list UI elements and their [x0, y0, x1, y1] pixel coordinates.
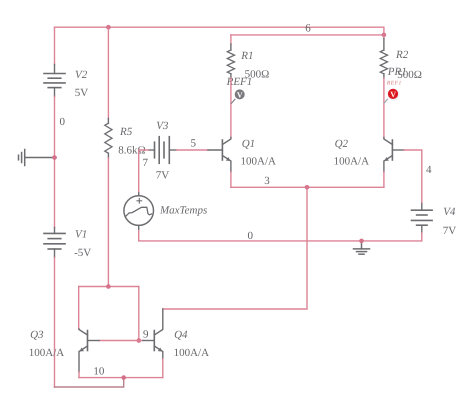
label 500ohm R2 [397, 69, 422, 81]
wire V3 left to MaxTemps top [139, 150, 149, 193]
transistor Q2 [384, 138, 404, 173]
node 9 label [143, 329, 149, 341]
label V1 [75, 228, 87, 240]
svg-text:5V: 5V [75, 87, 89, 99]
svg-text:Q4: Q4 [174, 329, 188, 341]
svg-text:R2: R2 [395, 49, 409, 61]
wire R5 bottom to mirror box [107, 158, 109, 287]
label 5V [75, 87, 89, 99]
wire Q3 emitter down [78, 372, 80, 378]
node 0 label mid [248, 230, 254, 242]
wire box left to Q3 collector [78, 287, 80, 330]
wire Q2 emitter down [383, 172, 385, 187]
svg-text:500Ω: 500Ω [397, 69, 422, 81]
svg-text:100A/A: 100A/A [241, 155, 277, 167]
svg-text:REF1: REF1 [386, 81, 402, 87]
wire V1 bottom to node10 [55, 258, 124, 388]
label V2 [75, 69, 88, 81]
battery V2 [44, 65, 65, 97]
svg-text:V1: V1 [75, 228, 87, 240]
resistor R2 [380, 39, 387, 79]
wire Q1 emitter down [230, 172, 232, 187]
svg-text:0: 0 [248, 230, 254, 242]
wire net6 drop to R1 [230, 35, 232, 44]
battery V3 [149, 137, 177, 164]
wire node9 to Q4 base [139, 340, 143, 342]
label 7V V4 [443, 225, 457, 237]
svg-text:100A/A: 100A/A [29, 347, 65, 359]
label 100A/A Q3 [29, 347, 65, 359]
node 7 label [143, 157, 149, 169]
label Q3 [30, 329, 44, 341]
wire Q3 base to node9 [99, 340, 139, 342]
junction net6/R2 [382, 33, 387, 38]
source MaxTemps [124, 193, 154, 231]
label 7V [156, 169, 170, 181]
label 500ohm R1 [245, 68, 270, 80]
node 6 label [305, 22, 311, 34]
svg-text:V4: V4 [443, 206, 456, 218]
label R2 [395, 49, 409, 61]
label Q1 [242, 138, 255, 150]
svg-text:0: 0 [60, 116, 66, 128]
svg-text:V3: V3 [156, 120, 169, 132]
wire Q2 base to V4 [404, 150, 422, 204]
svg-text:V2: V2 [75, 69, 88, 81]
transistor Q3 [79, 329, 99, 372]
junction ground/net0 [359, 239, 364, 244]
svg-text:V: V [390, 90, 396, 99]
wire mirror box top [79, 286, 139, 288]
svg-text:7: 7 [143, 157, 149, 169]
svg-text:REF1: REF1 [226, 76, 253, 88]
label PR1 [387, 66, 407, 78]
wire net3 emitters [231, 186, 384, 188]
svg-text:Q2: Q2 [335, 138, 349, 150]
wire V4 bottom to net0 [421, 233, 423, 241]
wire R2 bottom to Q2 collector [383, 78, 385, 138]
junction R5/mirror box [106, 284, 111, 289]
wire net6 top horizontal [55, 27, 384, 35]
svg-text:100A/A: 100A/A [174, 347, 210, 359]
wire MaxTemps bottom to net0 [139, 231, 422, 241]
ground left [19, 150, 57, 166]
probe REF1 [231, 89, 244, 103]
svg-text:R5: R5 [119, 126, 133, 138]
node 0 label upper [60, 116, 66, 128]
wire net3 down to Q4 collector [163, 187, 307, 309]
label 100A/A Q4 [174, 347, 210, 359]
svg-text:7V: 7V [156, 169, 170, 181]
svg-text:Q1: Q1 [242, 138, 255, 150]
label -5V [74, 247, 91, 259]
label REF1 small red [386, 81, 402, 87]
junction net6/R5 [106, 25, 111, 30]
node 5 label [191, 138, 197, 150]
svg-text:9: 9 [143, 329, 149, 341]
node 4 label [426, 164, 432, 176]
wire Q4 emitter down [162, 359, 164, 378]
junction net3 [305, 185, 310, 190]
transistor Q1 [208, 138, 231, 173]
label R1 [240, 50, 253, 62]
label MaxTemps [159, 204, 207, 216]
wire V3 right to Q1 base [177, 149, 209, 151]
node 10 label [93, 366, 105, 378]
junction net10 [121, 375, 126, 380]
svg-text:4: 4 [426, 164, 432, 176]
label Q4 [174, 329, 188, 341]
node 3 label [264, 175, 270, 187]
wire V2 bottom to V1 top [54, 97, 56, 228]
label V3 [156, 120, 169, 132]
svg-text:6: 6 [305, 22, 311, 34]
wire R5 top [107, 27, 109, 118]
label 100A/A Q1 [241, 155, 277, 167]
wire R1 bottom to Q1 collector [230, 78, 232, 138]
svg-text:MaxTemps: MaxTemps [159, 204, 207, 216]
wire V2 top [54, 27, 56, 64]
svg-text:-5V: -5V [74, 247, 91, 259]
svg-text:Q3: Q3 [30, 329, 44, 341]
junction ground/V1-V2 [52, 155, 57, 160]
probe PR1 [384, 89, 399, 103]
resistor R1 [227, 44, 234, 78]
wire net10 [79, 377, 163, 379]
label R5 [119, 126, 133, 138]
resistor R5 [105, 119, 112, 159]
wire net6 R1 to junction [231, 34, 384, 36]
svg-text:5: 5 [191, 138, 197, 150]
svg-text:3: 3 [264, 175, 270, 187]
battery V1 [44, 228, 65, 258]
wire box right to node9 [138, 287, 140, 341]
label Q2 [335, 138, 349, 150]
svg-text:7V: 7V [443, 225, 457, 237]
transistor Q4 [143, 309, 163, 359]
label 100A/A Q2 [334, 155, 370, 167]
label REF1 [226, 76, 253, 88]
svg-text:V: V [237, 91, 243, 100]
battery V4 [412, 204, 433, 234]
svg-text:R1: R1 [240, 50, 253, 62]
svg-text:100A/A: 100A/A [334, 155, 370, 167]
wire net6 drop to R2 [383, 35, 385, 39]
ground right [354, 241, 370, 254]
svg-text:10: 10 [93, 366, 105, 378]
junction node9 [137, 338, 142, 343]
label 8.6kohm [118, 145, 145, 157]
label V4 [443, 206, 456, 218]
